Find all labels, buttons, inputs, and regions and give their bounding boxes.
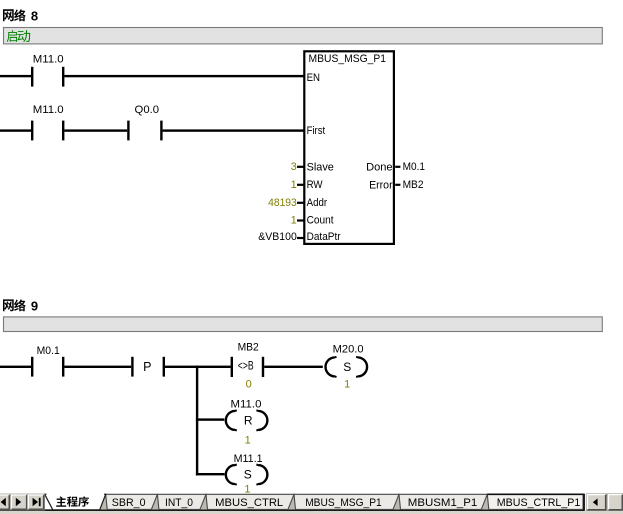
tab MBUSM1_P1	[399, 494, 487, 509]
wire rung2 left segment	[0, 129, 31, 131]
svg-text:P: P	[143, 360, 151, 374]
svg-text:INT_0: INT_0	[165, 497, 193, 509]
svg-text:M11.1: M11.1	[234, 453, 263, 465]
svg-text:M0.1: M0.1	[37, 345, 60, 357]
svg-text:Q0.0: Q0.0	[135, 104, 160, 116]
nav button first	[0, 494, 10, 510]
wire rung2 middle segment	[64, 129, 127, 131]
value &VB100 on DataPtr	[258, 231, 297, 243]
value 48193 on Addr	[268, 197, 297, 209]
svg-text:SBR_0: SBR_0	[112, 497, 146, 509]
wire rung2 to First pin	[163, 129, 305, 131]
svg-text:MBUSM1_P1: MBUSM1_P1	[408, 497, 478, 509]
contact M11.0 rung2	[31, 104, 64, 140]
tab strip shadow backing	[99, 494, 585, 509]
svg-text:Error: Error	[369, 179, 393, 191]
svg-text:1: 1	[291, 215, 297, 227]
nav button last	[28, 494, 45, 510]
pin tick RW	[297, 184, 304, 186]
nav button next	[11, 494, 28, 510]
tab SBR_0	[106, 494, 158, 509]
network 8 title	[3, 9, 38, 24]
output operand MB2 on Error	[403, 179, 424, 191]
svg-text:Done: Done	[366, 161, 393, 173]
svg-text:R: R	[244, 413, 253, 427]
pin tick Addr	[297, 202, 304, 204]
branch vertical wire	[196, 366, 198, 476]
svg-text:1: 1	[245, 435, 251, 447]
svg-text:EN: EN	[307, 72, 320, 84]
svg-text:M11.0: M11.0	[33, 54, 64, 66]
svg-text:0: 0	[246, 379, 252, 391]
value 1 on Count	[291, 215, 297, 227]
scrollbar left arrow button	[587, 494, 607, 511]
network 8 comment bar	[4, 28, 603, 44]
coil M11.1 set S 1	[226, 453, 268, 496]
svg-text:1: 1	[344, 378, 350, 390]
pin tick Done	[395, 166, 400, 168]
svg-text:9: 9	[31, 299, 38, 314]
svg-text:DataPtr: DataPtr	[307, 231, 341, 243]
tab bar background strip	[0, 511, 623, 514]
svg-text:Slave: Slave	[307, 161, 334, 173]
svg-text:First: First	[307, 125, 326, 137]
scrollbar track stub	[608, 494, 623, 511]
output operand M0.1 on Done	[403, 161, 425, 173]
svg-text:S: S	[343, 360, 351, 374]
value 1 on RW	[291, 179, 297, 191]
svg-text:1: 1	[291, 179, 297, 191]
wire rung1 to function block	[64, 75, 304, 77]
network 9 comment bar	[4, 317, 603, 332]
network 9 title	[3, 299, 38, 314]
svg-text:M20.0: M20.0	[333, 344, 364, 356]
active tab main program	[45, 493, 106, 510]
svg-text:MB2: MB2	[403, 179, 424, 191]
svg-text:Count: Count	[307, 215, 334, 227]
svg-text:MB2: MB2	[238, 342, 259, 354]
pin tick DataPtr	[297, 237, 304, 239]
svg-text:MBUS_MSG_P1: MBUS_MSG_P1	[305, 497, 382, 509]
svg-text:48193: 48193	[268, 197, 297, 209]
svg-text:M11.0: M11.0	[33, 104, 64, 116]
pin tick Error	[395, 184, 400, 186]
branch wire to S coil	[196, 473, 225, 475]
tab MBUS_MSG_P1	[294, 494, 399, 509]
wire rung3 segment 3	[165, 366, 231, 368]
wire rung1 left segment	[0, 75, 31, 77]
wire rung3 segment 2	[64, 366, 131, 368]
tab strip bottom line	[0, 509, 585, 511]
svg-text:M11.0: M11.0	[231, 399, 262, 411]
svg-text:MBUS_CTRL_P1: MBUS_CTRL_P1	[497, 497, 581, 509]
svg-text:<>B: <>B	[238, 358, 254, 372]
tab MBUS_CTRL_P1	[487, 494, 584, 509]
wire rung3 left segment	[0, 366, 31, 368]
coil M11.0 reset R 1	[226, 399, 268, 447]
contact M0.1	[31, 345, 64, 377]
svg-text:Addr: Addr	[307, 197, 328, 209]
value 3 on Slave	[291, 161, 297, 173]
tab strip right border	[583, 494, 585, 511]
contact M11.0 rung1	[31, 54, 64, 87]
svg-text:&VB100: &VB100	[258, 231, 297, 243]
coil M20.0 set S 1	[326, 344, 368, 391]
branch wire to R coil	[196, 418, 224, 420]
svg-text:M0.1: M0.1	[403, 161, 425, 173]
tab MBUS_CTRL	[206, 494, 294, 509]
compare contact MB2 <>B 0	[231, 342, 265, 391]
svg-text:RW: RW	[307, 179, 324, 191]
contact Q0.0	[127, 104, 162, 140]
svg-text:3: 3	[291, 161, 297, 173]
svg-text:MBUS_CTRL: MBUS_CTRL	[215, 497, 283, 509]
tab INT_0	[157, 494, 206, 509]
wire rung3 segment 4	[264, 366, 323, 368]
pin tick Count	[297, 219, 304, 221]
svg-text:8: 8	[31, 9, 38, 24]
svg-text:S: S	[244, 468, 252, 482]
svg-text:MBUS_MSG_P1: MBUS_MSG_P1	[309, 53, 387, 65]
contact P positive edge	[131, 357, 165, 377]
pin tick Slave	[297, 166, 304, 168]
function block MBUS_MSG_P1	[304, 51, 394, 244]
